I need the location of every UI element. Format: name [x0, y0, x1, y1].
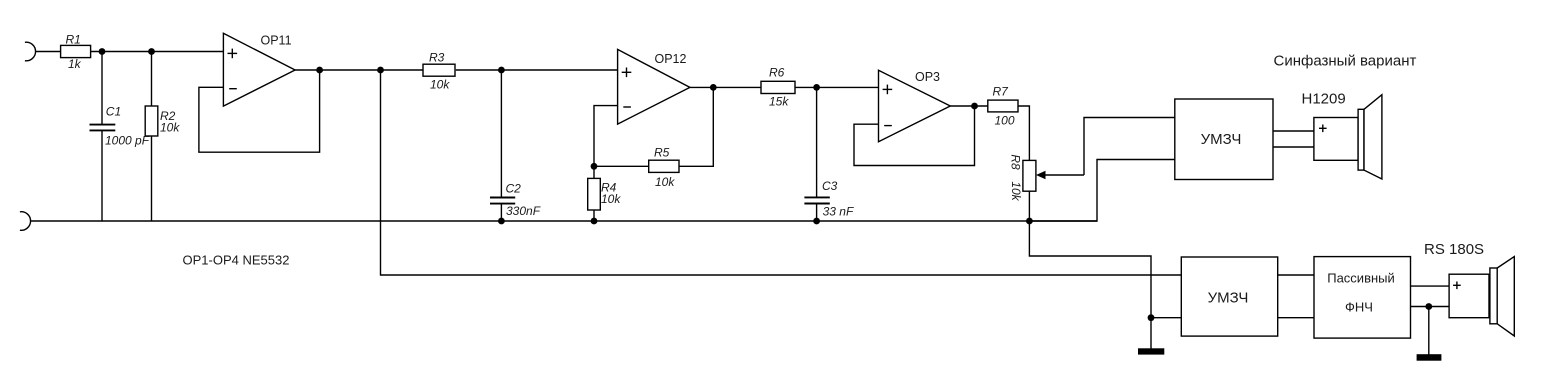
svg-text:ФНЧ: ФНЧ	[1345, 300, 1373, 315]
speaker RS 180S	[1424, 241, 1514, 336]
node 12	[971, 103, 978, 110]
wire OP12 inverting input to feedback node	[594, 106, 618, 167]
node 15	[1425, 303, 1432, 310]
node 4	[377, 67, 384, 74]
svg-text:33 nF: 33 nF	[823, 205, 854, 219]
node 14	[1148, 314, 1155, 321]
wire UMZCH2 output top to LPF	[1278, 274, 1314, 276]
svg-text:10k: 10k	[655, 175, 675, 189]
capacitor C3	[804, 87, 854, 221]
wire IN1 to R1	[36, 51, 61, 53]
svg-text:OP12: OP12	[655, 52, 687, 66]
passive LPF block	[1314, 257, 1411, 339]
wire R3 to OP12 plus input	[456, 69, 618, 71]
node 11	[813, 218, 820, 225]
wire node 15 to ground 2	[1428, 307, 1430, 356]
resistor R7	[988, 85, 1018, 128]
svg-text:100: 100	[995, 114, 1015, 128]
svg-text:OP11: OP11	[261, 34, 292, 48]
node 2	[148, 48, 155, 55]
svg-text:C3: C3	[822, 179, 838, 193]
svg-text:1000 pF: 1000 pF	[105, 134, 150, 148]
svg-text:R7: R7	[993, 85, 1010, 99]
svg-text:УМЗЧ: УМЗЧ	[1201, 131, 1242, 148]
svg-text:C1: C1	[106, 105, 121, 119]
wire bottom rail	[31, 220, 1097, 222]
resistor R4	[588, 166, 622, 221]
resistor R2	[145, 52, 180, 222]
potentiometer R8	[1009, 154, 1036, 221]
wire node 7 to R5	[594, 165, 649, 167]
svg-text:10k: 10k	[430, 78, 450, 92]
wire R1 to OP11 plus input	[91, 51, 224, 53]
wire node 14 to second amplifier bottom input	[1151, 317, 1181, 319]
input connector IN2	[20, 212, 31, 231]
wire rail to first amplifier bottom input	[1029, 160, 1174, 222]
node 5	[498, 67, 505, 74]
svg-text:1k: 1k	[68, 57, 82, 71]
svg-text:Н1209: Н1209	[1302, 91, 1346, 108]
resistor R1	[61, 33, 91, 72]
svg-text:R6: R6	[769, 66, 785, 80]
svg-text:R5: R5	[654, 146, 670, 160]
svg-text:15k: 15k	[769, 95, 789, 109]
wire R8 wiper to first amplifier top input	[1036, 118, 1175, 180]
svg-text:R1: R1	[66, 33, 81, 47]
ground 2	[1417, 354, 1442, 361]
svg-text:RS 180S: RS 180S	[1424, 241, 1484, 258]
svg-text:10k: 10k	[1009, 181, 1023, 201]
node 9	[591, 218, 598, 225]
svg-text:10k: 10k	[160, 121, 180, 135]
svg-text:R3: R3	[429, 51, 445, 65]
wire UMZCH2 output bottom to LPF	[1278, 317, 1314, 319]
svg-text:OP3: OP3	[915, 70, 940, 84]
wire OP3 feedback loop	[854, 106, 975, 166]
op-amp OP11	[223, 33, 295, 106]
capacitor C1	[90, 52, 150, 222]
op-amp OP12	[618, 49, 690, 124]
wire R5 to OP12 output	[679, 87, 713, 166]
svg-text:C2: C2	[506, 182, 522, 196]
amplifier block UMZCH 2	[1181, 257, 1277, 336]
op-amp OP3	[879, 70, 951, 142]
svg-text:УМЗЧ: УМЗЧ	[1208, 290, 1249, 307]
capacitor C2	[490, 70, 541, 221]
wire OP11 feedback loop	[199, 70, 320, 152]
node 7	[591, 163, 598, 170]
wire R6 to OP3 plus input	[795, 86, 879, 88]
wire LPF output bottom to speaker	[1411, 306, 1450, 308]
svg-text:330nF: 330nF	[506, 204, 541, 218]
wire OP12 output to R6	[690, 86, 761, 88]
svg-text:OP1-OP4 NE5532: OP1-OP4 NE5532	[183, 253, 290, 268]
node 8	[710, 84, 717, 91]
node 6	[498, 218, 505, 225]
svg-text:Синфазный вариант: Синфазный вариант	[1274, 53, 1417, 70]
node 13	[1026, 218, 1033, 225]
ground 1	[1138, 348, 1164, 354]
wire UMZCH1 output top to speaker	[1273, 130, 1314, 132]
node 3	[316, 67, 323, 74]
wire node 13 down to ground branch	[1029, 221, 1151, 349]
svg-text:R8: R8	[1009, 154, 1023, 170]
wire OP11 output to R3	[295, 69, 422, 71]
wire OP3 output to R7	[950, 105, 988, 107]
input connector IN1	[25, 42, 36, 61]
wire LPF output top to speaker	[1411, 285, 1450, 287]
amplifier block UMZCH 1	[1175, 99, 1273, 180]
node 1	[99, 48, 106, 55]
resistor R6	[761, 66, 795, 109]
wire UMZCH1 output bottom to speaker	[1273, 146, 1314, 148]
resistor R5	[649, 146, 679, 190]
speaker H1209	[1302, 91, 1382, 180]
svg-text:Пассивный: Пассивный	[1327, 271, 1395, 286]
wire R7 to potentiometer R8	[1018, 106, 1029, 160]
wire from node 4 down and right to second amplifier	[381, 70, 1182, 275]
svg-text:10k: 10k	[601, 192, 621, 206]
resistor R3	[423, 51, 455, 92]
node 10	[813, 84, 820, 91]
